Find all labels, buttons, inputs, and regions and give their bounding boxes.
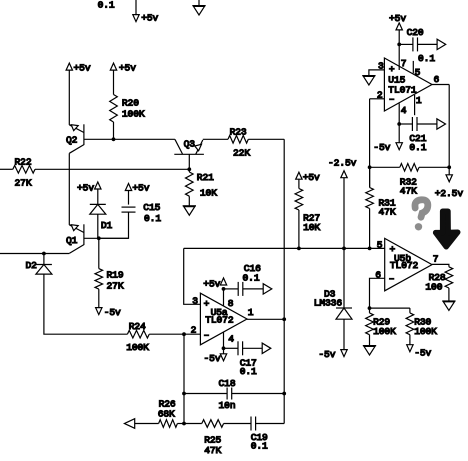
svg-text:-5v: -5v: [414, 347, 431, 358]
svg-text:-5v: -5v: [373, 142, 390, 153]
svg-text:0.1: 0.1: [409, 142, 426, 153]
transistor Q2: [83, 124, 85, 145]
svg-text:10K: 10K: [303, 222, 320, 233]
diode D2: [43, 254, 45, 265]
svg-text:6: 6: [434, 74, 440, 85]
resistor R21: [188, 169, 190, 172]
resistor R31: [369, 167, 371, 187]
svg-text:C20: C20: [407, 27, 424, 38]
svg-text:+5v: +5v: [303, 172, 320, 183]
svg-text:47K: 47K: [400, 186, 417, 197]
wire +5v to C15: [128, 191, 130, 205]
wire D2 to R24: [44, 274, 128, 334]
svg-text:1: 1: [248, 307, 254, 318]
node R27/main: [297, 247, 301, 251]
node pin4/C21: [397, 122, 401, 126]
svg-text:Q2: Q2: [66, 134, 78, 145]
power +5v at Q2 emitter: [66, 63, 72, 70]
wire feedback column: [283, 139, 285, 423]
wire U15 pin2 down: [369, 99, 371, 188]
node -2.5v/main: [342, 247, 346, 251]
svg-text:+5v: +5v: [389, 13, 406, 24]
wire R22 to Q3 base node: [35, 168, 189, 170]
svg-text:+5v: +5v: [119, 62, 136, 73]
wire R27 to main node: [298, 210, 300, 248]
svg-text:0.1: 0.1: [418, 53, 435, 64]
svg-text:U15: U15: [388, 74, 405, 85]
svg-text:3: 3: [192, 296, 198, 307]
wire Q3 collector to R23: [203, 138, 228, 140]
pin 4 stub U5a: [223, 332, 225, 349]
svg-text:4: 4: [228, 333, 234, 344]
svg-text:+2.5v: +2.5v: [435, 188, 464, 199]
node C18 right: [282, 392, 286, 396]
capacitor C18: [184, 393, 227, 395]
node Q3 base / R21 / R22: [187, 167, 191, 171]
node pin4/C17: [222, 346, 226, 350]
svg-text:R21: R21: [197, 172, 214, 183]
svg-text:47K: 47K: [379, 207, 396, 218]
resistor R19: [98, 238, 100, 268]
node U5a output junction: [282, 317, 286, 321]
svg-text:C18: C18: [219, 378, 236, 389]
svg-text:2: 2: [191, 325, 197, 336]
capacitor C17: [224, 347, 239, 349]
svg-text:+5v: +5v: [77, 183, 94, 194]
wire C15 to base node: [99, 212, 129, 238]
wire pin2 down: [183, 334, 185, 423]
wire U15 output: [432, 84, 449, 86]
power -5v below R30: [409, 335, 411, 345]
node R26/R25 junction: [182, 422, 186, 426]
svg-text:–: –: [389, 273, 395, 284]
svg-text:7: 7: [433, 254, 439, 265]
wire U15 pin2: [370, 98, 385, 100]
wire main node to U5a pin3: [184, 248, 201, 304]
svg-text:D2: D2: [26, 260, 38, 271]
svg-text:100: 100: [425, 282, 442, 293]
svg-text:-5v: -5v: [104, 307, 121, 318]
svg-text:D1: D1: [101, 220, 113, 231]
resistor R30: [409, 308, 411, 313]
svg-text:7: 7: [401, 58, 407, 69]
pin 1 stub U15: [414, 95, 416, 115]
svg-text:+: +: [204, 299, 210, 310]
svg-text:22K: 22K: [233, 148, 250, 159]
diode D3 LM336: [336, 307, 352, 309]
wire R20 to base node: [113, 122, 115, 139]
capacitor C19: [224, 423, 251, 425]
pin 4 stub U15: [398, 103, 400, 142]
resistor R29: [366, 313, 374, 335]
node D2 junction: [42, 252, 46, 256]
node D1/R19 on Q1 base: [97, 236, 101, 240]
svg-text:5: 5: [377, 240, 383, 251]
wire main node horizontal: [184, 247, 385, 249]
svg-text:27K: 27K: [107, 280, 124, 291]
wire R24 to U5a pin2: [149, 333, 200, 335]
svg-text:R24: R24: [129, 321, 146, 332]
svg-text:TL072: TL072: [390, 260, 419, 271]
svg-text:0.1: 0.1: [240, 366, 257, 377]
annotation black down arrow: [436, 211, 458, 247]
svg-text:100K: 100K: [126, 342, 149, 353]
svg-text:0.1: 0.1: [144, 213, 161, 224]
output arrow left (bottom): [124, 419, 134, 429]
wire +5v to Q2: [68, 70, 70, 125]
wire -2.5v to D3: [343, 178, 345, 308]
ground at U15 pin3: [362, 75, 375, 77]
power +5v at R20: [110, 63, 116, 70]
svg-text:100K: 100K: [414, 326, 437, 337]
node U5a pin2 junction: [182, 332, 186, 336]
wire Q1 base: [84, 237, 129, 239]
svg-text:R23: R23: [230, 126, 247, 137]
wire U5a output: [247, 318, 284, 320]
svg-text:8: 8: [228, 298, 234, 309]
svg-text:+5v: +5v: [132, 183, 149, 194]
svg-text:R19: R19: [107, 270, 124, 281]
svg-text:LM336: LM336: [314, 298, 343, 309]
wire U15 output down: [448, 85, 450, 175]
ground top edge: [198, 0, 200, 6]
svg-text:Q3: Q3: [184, 138, 196, 149]
svg-text:27K: 27K: [15, 178, 32, 189]
wire to R30: [370, 307, 410, 309]
resistor R26: [135, 423, 159, 425]
capacitor C21: [399, 123, 412, 125]
svg-text:R20: R20: [122, 97, 139, 108]
wire +5v to R20: [113, 70, 115, 94]
power +2.5v output: [446, 175, 452, 182]
wire R28 to ground: [448, 288, 450, 301]
power -5v at U15 pin4: [396, 143, 402, 150]
node R32 left: [368, 165, 372, 169]
power -5v below R19: [98, 289, 100, 308]
node pin8/C16: [222, 287, 226, 291]
power +5v (down arrow) top edge: [135, 0, 137, 14]
svg-text:100K: 100K: [122, 109, 145, 120]
svg-text:0.1: 0.1: [98, 0, 115, 11]
svg-text:0.1: 0.1: [251, 441, 268, 452]
svg-text:10K: 10K: [200, 188, 217, 199]
pin 8 stub U5a: [223, 289, 225, 306]
svg-text:5: 5: [415, 67, 421, 78]
node R32 right: [447, 165, 451, 169]
svg-text:+5v: +5v: [141, 12, 158, 23]
wire +5v to pin7: [398, 30, 400, 70]
svg-text:R22: R22: [15, 156, 32, 167]
wire R26 to node: [177, 423, 184, 425]
resistor R27: [298, 179, 300, 188]
node R31/main: [368, 247, 372, 251]
svg-text:-5v: -5v: [204, 353, 221, 364]
svg-text:47K: 47K: [204, 445, 221, 456]
wire U5b output: [432, 264, 449, 266]
svg-text:68K: 68K: [158, 408, 175, 419]
wire Q2 base to Q3: [84, 138, 175, 140]
svg-text:-5v: -5v: [318, 349, 335, 360]
wire D1 to base node: [97, 214, 99, 238]
svg-text:10n: 10n: [219, 400, 236, 411]
svg-text:4: 4: [401, 105, 407, 116]
wire Q2 emitter to Q1: [68, 153, 70, 225]
svg-text:TL072: TL072: [205, 314, 234, 325]
capacitor C20: [399, 43, 413, 45]
svg-text:TL071: TL071: [388, 85, 417, 96]
resistor R20: [110, 95, 118, 123]
annotation gray question mark: [415, 200, 428, 217]
svg-text:0.1: 0.1: [243, 273, 260, 284]
wire input to Q1: [0, 253, 69, 255]
capacitor C15: [122, 206, 136, 208]
ground below R21: [183, 205, 196, 207]
svg-text:–: –: [204, 329, 210, 340]
wire R23 to feedback column: [248, 138, 284, 140]
svg-text:+5v: +5v: [74, 62, 91, 73]
ground below R28: [442, 300, 455, 302]
svg-text:-2.5v: -2.5v: [328, 157, 357, 168]
node R29/R30 junction: [368, 306, 372, 310]
svg-text:C15: C15: [143, 202, 160, 213]
svg-text:+5v: +5v: [203, 279, 220, 290]
node R20/base junction: [112, 137, 116, 141]
svg-text:Q1: Q1: [66, 235, 78, 246]
resistor R32: [370, 166, 400, 168]
op-amp U5b TL072: [385, 238, 432, 290]
resistor R22: [0, 168, 13, 170]
power -5v below D3: [343, 319, 345, 349]
ground below R29: [363, 345, 376, 347]
resistor R28: [445, 267, 453, 288]
resistor R25: [184, 423, 202, 425]
transistor Q3: [174, 153, 204, 155]
pin 5 stub U15: [412, 61, 414, 73]
wire Q3 base down: [188, 154, 190, 169]
wire R21 to ground: [188, 196, 190, 206]
power +5v at C15: [125, 184, 131, 191]
resistor R23: [228, 136, 248, 144]
transistor Q1: [83, 224, 85, 245]
node +5v/C20: [397, 43, 401, 47]
diode D1: [90, 203, 106, 205]
node C18 left: [182, 392, 186, 396]
capacitor C16: [224, 288, 239, 290]
wire U15 pin3: [369, 70, 385, 76]
wire +5v to D1: [97, 189, 99, 204]
resistor R24: [127, 330, 149, 338]
wire R31 to main node: [369, 209, 371, 249]
wire U5b pin6 feedback: [370, 278, 385, 308]
svg-text:1: 1: [416, 95, 422, 106]
wire R29 to ground: [369, 335, 371, 346]
power +5v at R27: [296, 172, 302, 179]
op-amp U5a TL072: [200, 293, 247, 345]
svg-text:100K: 100K: [373, 326, 396, 337]
op-amp U15 TL071: [384, 58, 432, 111]
